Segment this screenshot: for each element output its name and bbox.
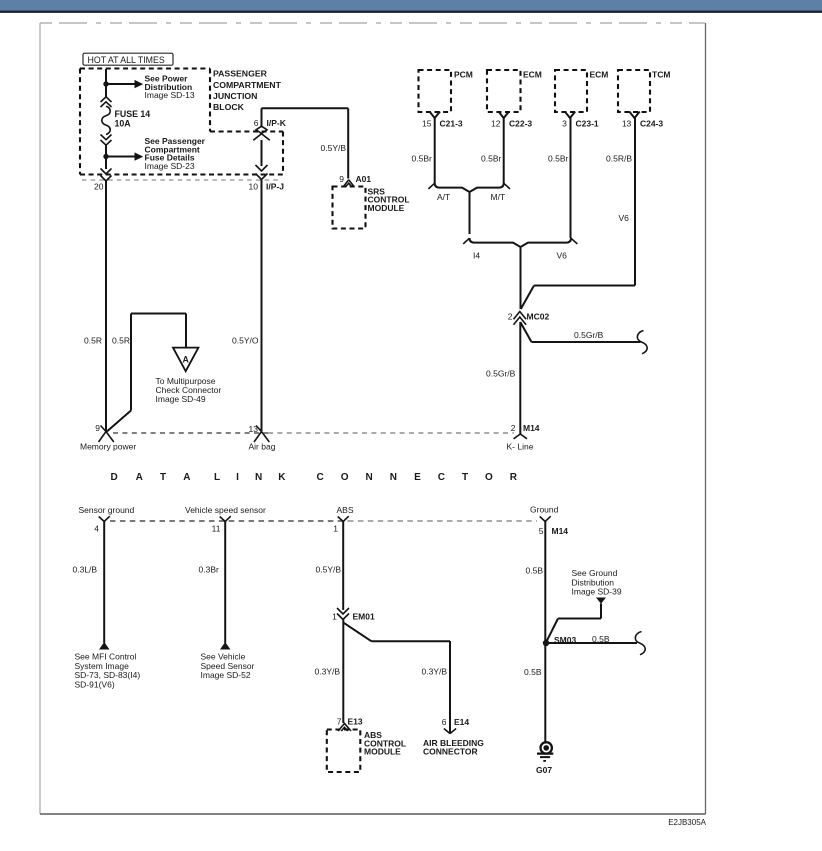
svg-text:MC02: MC02 (527, 312, 550, 322)
svg-text:12: 12 (491, 118, 501, 128)
svg-text:DATA: DATA (111, 472, 191, 483)
svg-text:0.3Y/B: 0.3Y/B (422, 667, 448, 677)
svg-text:2: 2 (511, 423, 516, 433)
svg-text:0.5B: 0.5B (526, 565, 544, 575)
svg-text:1: 1 (333, 524, 338, 534)
svg-text:TCM: TCM (652, 70, 670, 80)
svg-text:0.5Y/B: 0.5Y/B (316, 565, 342, 575)
svg-text:9: 9 (95, 423, 100, 433)
svg-text:M14: M14 (552, 526, 569, 536)
svg-text:Image SD-23: Image SD-23 (145, 161, 195, 171)
svg-text:4: 4 (94, 524, 99, 534)
svg-text:7: 7 (337, 717, 342, 727)
svg-text:G07: G07 (536, 765, 552, 775)
svg-text:Sensor ground: Sensor ground (79, 505, 135, 515)
svg-text:10A: 10A (115, 118, 132, 128)
svg-text:Ground: Ground (530, 504, 559, 514)
svg-text:0.3Br: 0.3Br (199, 565, 219, 575)
svg-text:COMPARTMENT: COMPARTMENT (213, 80, 282, 90)
svg-text:10: 10 (249, 182, 259, 192)
svg-text:Image SD-52: Image SD-52 (201, 670, 251, 680)
svg-text:E13: E13 (348, 717, 363, 727)
svg-text:11: 11 (212, 524, 221, 534)
svg-text:13: 13 (622, 118, 632, 128)
svg-text:CONNECTOR: CONNECTOR (317, 472, 518, 483)
svg-text:Image SD-39: Image SD-39 (572, 587, 622, 597)
svg-text:I/P-J: I/P-J (266, 182, 284, 192)
svg-text:0.3Y/B: 0.3Y/B (315, 667, 341, 677)
svg-text:15: 15 (422, 118, 432, 128)
svg-text:ECM: ECM (523, 70, 542, 80)
svg-text:C22-3: C22-3 (509, 118, 532, 128)
svg-text:6: 6 (442, 717, 447, 727)
svg-text:Air bag: Air bag (249, 441, 276, 451)
svg-text:C21-3: C21-3 (440, 118, 463, 128)
svg-text:C24-3: C24-3 (640, 118, 663, 128)
svg-text:K- Line: K- Line (507, 441, 534, 451)
svg-text:PASSENGER: PASSENGER (213, 69, 268, 79)
svg-text:ECM: ECM (590, 70, 609, 80)
svg-text:SD-91(V6): SD-91(V6) (75, 680, 115, 690)
svg-text:I/P-K: I/P-K (267, 118, 287, 128)
svg-text:0.5Br: 0.5Br (548, 153, 568, 163)
svg-text:MODULE: MODULE (364, 747, 401, 757)
svg-text:0.5Gr/B: 0.5Gr/B (574, 330, 604, 340)
svg-text:1: 1 (332, 611, 337, 621)
svg-text:Vehicle speed sensor: Vehicle speed sensor (185, 505, 266, 515)
svg-text:0.3L/B: 0.3L/B (73, 565, 98, 575)
svg-text:3: 3 (562, 118, 567, 128)
svg-text:CONNECTOR: CONNECTOR (423, 747, 478, 757)
svg-text:0.5Y/B: 0.5Y/B (321, 143, 347, 153)
svg-text:C23-1: C23-1 (576, 118, 599, 128)
svg-text:0.5R: 0.5R (84, 335, 102, 345)
svg-text:20: 20 (94, 182, 104, 192)
svg-text:6: 6 (254, 118, 259, 128)
svg-text:V6: V6 (619, 213, 630, 223)
svg-text:0.5Br: 0.5Br (412, 153, 432, 163)
svg-text:E2JB305A: E2JB305A (668, 818, 706, 827)
svg-text:M14: M14 (523, 423, 540, 433)
svg-text:0.5B: 0.5B (592, 634, 610, 644)
svg-text:0.5Gr/B: 0.5Gr/B (486, 368, 516, 378)
svg-text:Image SD-49: Image SD-49 (156, 394, 206, 404)
svg-text:0.5R: 0.5R (112, 335, 130, 345)
svg-text:A01: A01 (356, 174, 372, 184)
svg-text:I4: I4 (473, 250, 480, 260)
svg-text:A/T: A/T (437, 192, 450, 202)
svg-text:0.5R/B: 0.5R/B (606, 153, 632, 163)
svg-text:BLOCK: BLOCK (213, 102, 245, 112)
svg-text:LINK: LINK (214, 472, 286, 483)
svg-text:A: A (183, 355, 190, 365)
svg-text:V6: V6 (557, 250, 568, 260)
svg-text:M/T: M/T (491, 192, 506, 202)
svg-text:E14: E14 (454, 717, 469, 727)
svg-text:0.5B: 0.5B (524, 667, 542, 677)
svg-text:Memory power: Memory power (80, 441, 136, 451)
svg-text:JUNCTION: JUNCTION (213, 91, 257, 101)
svg-text:MODULE: MODULE (368, 203, 405, 213)
svg-text:0.5Br: 0.5Br (481, 153, 501, 163)
svg-text:2: 2 (508, 312, 513, 322)
svg-text:EM01: EM01 (353, 611, 375, 621)
svg-text:5: 5 (539, 526, 544, 536)
svg-text:HOT AT ALL TIMES: HOT AT ALL TIMES (88, 55, 165, 65)
svg-text:Image SD-13: Image SD-13 (145, 90, 195, 100)
svg-text:0.5Y/O: 0.5Y/O (232, 335, 259, 345)
svg-text:ABS: ABS (337, 505, 354, 515)
svg-text:9: 9 (339, 174, 344, 184)
svg-text:PCM: PCM (454, 70, 473, 80)
